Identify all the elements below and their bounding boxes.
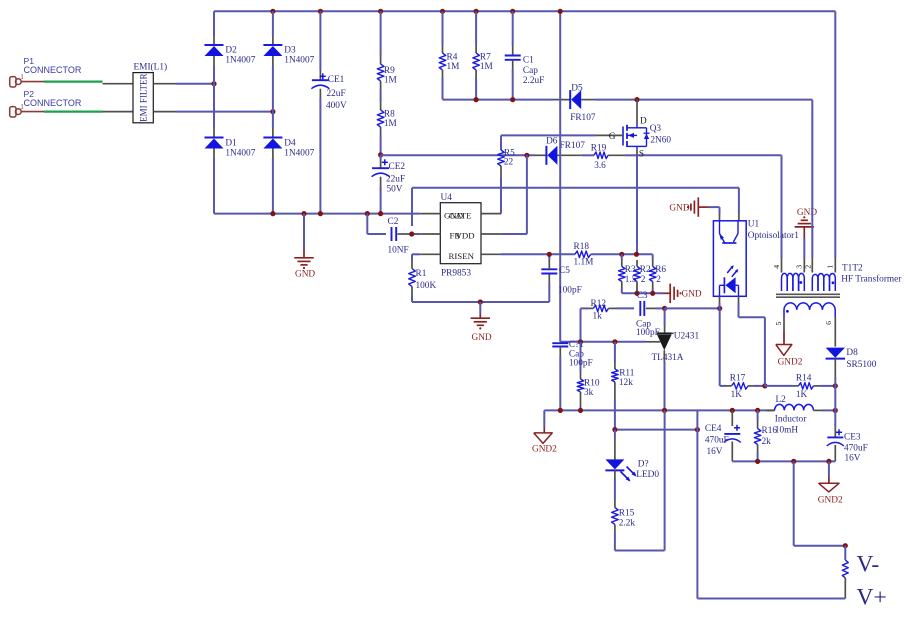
label T1T2 HF Transformer xyxy=(841,263,902,284)
svg-text:Inductor: Inductor xyxy=(775,415,807,425)
junction drain net at C1 xyxy=(510,97,515,102)
svg-text:FR107: FR107 xyxy=(570,113,596,123)
wire Q3 source down to aux rail xyxy=(636,155,638,254)
pin TL431 anode xyxy=(663,350,665,361)
capacitor CE2 22uF 50V xyxy=(372,159,406,194)
svg-text:Optoisolator1: Optoisolator1 xyxy=(748,231,799,241)
svg-text:1.1M: 1.1M xyxy=(574,258,594,268)
wire GND2 rail xyxy=(544,409,774,411)
svg-text:1N4007: 1N4007 xyxy=(225,149,255,159)
svg-text:22uF: 22uF xyxy=(386,174,405,184)
diode D4 1N4007 xyxy=(263,138,314,159)
capacitor C1 2.2uF xyxy=(505,56,545,87)
junction R17 R14 node xyxy=(762,383,767,388)
svg-text:SR5100: SR5100 xyxy=(846,360,876,370)
junction bottom rail at D4 xyxy=(270,211,275,216)
pin Q3 gate xyxy=(596,132,623,142)
svg-text:R11: R11 xyxy=(619,368,635,378)
junction top bus at CE1 xyxy=(318,9,323,14)
wire CE2 top xyxy=(380,155,382,168)
junction FB C2 node xyxy=(409,231,414,236)
pin D5 anode xyxy=(581,99,594,101)
junction at D1 D2 node xyxy=(211,81,216,86)
svg-text:2N60: 2N60 xyxy=(650,136,671,146)
svg-text:CONNECTOR: CONNECTOR xyxy=(24,98,82,108)
svg-text:1k: 1k xyxy=(593,311,603,321)
wire node to R14 xyxy=(765,385,793,387)
svg-text:GND: GND xyxy=(797,208,817,218)
pin U4 RISEN left xyxy=(420,253,440,255)
svg-text:C2: C2 xyxy=(388,217,399,227)
wire ref net xyxy=(560,341,646,343)
svg-text:R19: R19 xyxy=(591,143,607,153)
svg-text:GND2: GND2 xyxy=(778,357,803,367)
wire RISEN to R1 xyxy=(412,254,420,260)
svg-text:EMI FILTER: EMI FILTER xyxy=(139,73,149,121)
svg-text:4: 4 xyxy=(772,265,781,269)
wire LED to R15 xyxy=(614,470,616,507)
wire D3 anode to node xyxy=(272,66,274,112)
pin EMI filter left top xyxy=(103,83,134,85)
ground GND2 output xyxy=(818,461,843,505)
junction divider rail at R3 xyxy=(619,252,624,257)
wire output bottom rail xyxy=(732,460,835,462)
wire CE1 bottom xyxy=(319,89,321,214)
node C3 label xyxy=(637,291,648,301)
wire R7 top xyxy=(475,11,477,53)
svg-text:D2: D2 xyxy=(225,45,237,55)
wire R14 to D8 column xyxy=(820,385,835,387)
svg-text:R4: R4 xyxy=(447,52,458,62)
diode D? LED0 xyxy=(605,459,659,481)
svg-text:2: 2 xyxy=(803,265,812,269)
svg-text:G: G xyxy=(609,132,616,142)
svg-text:5: 5 xyxy=(774,321,783,325)
diode D6 FR107 xyxy=(546,137,585,165)
ground GND primary xyxy=(795,208,818,238)
svg-text:2.2uF: 2.2uF xyxy=(523,76,544,86)
wire GND to opto collector xyxy=(709,207,720,214)
wire R4 top xyxy=(442,11,444,53)
pin U4 VDD right xyxy=(481,233,500,235)
pin EMI filter right top xyxy=(153,83,176,85)
resistor R18 1.1M xyxy=(574,242,594,268)
connector P1 xyxy=(10,56,82,87)
wire R17 to node xyxy=(754,385,765,387)
svg-text:HF Transformer: HF Transformer xyxy=(841,274,902,285)
transformer secondary winding 5-6 xyxy=(784,303,835,317)
resistor R12 1k xyxy=(588,299,616,322)
pin 5 to GND2 xyxy=(783,317,785,345)
wire D2 anode to node xyxy=(213,66,215,84)
svg-text:1: 1 xyxy=(20,73,24,81)
capacitor C5 100pF xyxy=(541,266,581,296)
svg-text:R15: R15 xyxy=(619,508,635,518)
pin EMI filter right bottom xyxy=(153,111,176,113)
junction bottom rail at CE2 xyxy=(378,211,383,216)
svg-text:100pF: 100pF xyxy=(558,286,582,296)
ground GND opto sideways xyxy=(669,197,708,216)
svg-text:16V: 16V xyxy=(707,447,723,457)
resistor R7 1M xyxy=(473,52,493,72)
junction at D6 net xyxy=(524,153,529,158)
svg-text:3.6: 3.6 xyxy=(594,161,606,171)
wire R4 bottom xyxy=(442,70,444,100)
svg-text:EMI(L1): EMI(L1) xyxy=(134,62,168,73)
wire TL431 cathode xyxy=(664,308,666,333)
junction gnd rail at TL431 anode xyxy=(662,408,667,413)
svg-text:22: 22 xyxy=(504,157,514,167)
junction feedback rail at R11 LED xyxy=(612,427,617,432)
svg-text:V+: V+ xyxy=(857,585,887,611)
svg-text:R14: R14 xyxy=(796,373,812,383)
optoisolator U1 Optoisolator1 xyxy=(713,220,799,297)
shunt reference U2431 TL431A xyxy=(652,332,700,364)
wire feedback rail corner to V line xyxy=(695,427,700,432)
pin U4 FB left xyxy=(420,233,440,235)
svg-text:1K: 1K xyxy=(796,390,808,400)
pin R5 bottom xyxy=(500,166,502,178)
wire pin1 column from top bus xyxy=(834,11,836,272)
wire C2 to FB xyxy=(412,233,421,235)
wire C1 top xyxy=(512,11,514,55)
svg-text:R18: R18 xyxy=(574,242,590,252)
pin D5 cathode xyxy=(554,99,571,101)
svg-text:R17: R17 xyxy=(730,373,746,383)
pin U4 RISEN right xyxy=(481,253,500,255)
junction bottom rail R16 xyxy=(755,459,760,464)
pin U1 base side xyxy=(738,214,740,221)
wire top bus xyxy=(214,10,835,12)
junction gnd rail at R10 xyxy=(578,408,583,413)
junction divider rail at R2 xyxy=(634,252,639,257)
svg-text:3: 3 xyxy=(795,265,804,269)
wire pin4 column xyxy=(781,155,783,272)
svg-text:Cap: Cap xyxy=(523,66,538,76)
svg-text:D4: D4 xyxy=(284,139,296,149)
wire R9 top xyxy=(380,11,382,64)
wire C3 to TL431 node xyxy=(656,307,665,309)
pin D6 anode xyxy=(557,154,581,156)
wire RISEN net right xyxy=(500,253,575,255)
svg-text:R12: R12 xyxy=(591,299,607,309)
svg-text:400V: 400V xyxy=(326,101,347,111)
svg-text:1M: 1M xyxy=(480,62,493,72)
junction at D3 D4 node xyxy=(270,109,275,114)
svg-text:D1: D1 xyxy=(225,139,237,149)
wire D1 anode to bottom rail xyxy=(213,158,215,214)
svg-text:D3: D3 xyxy=(284,45,296,55)
svg-text:R10: R10 xyxy=(584,378,600,388)
wire TL431 anode to gnd rail xyxy=(664,361,666,410)
svg-text:GND: GND xyxy=(472,333,492,343)
wire bottom rail GND xyxy=(214,213,420,215)
wire R18 to divider rail xyxy=(591,253,653,255)
wire C2 branch xyxy=(367,214,386,234)
wire LED top xyxy=(614,430,616,460)
svg-text:470uF: 470uF xyxy=(705,435,729,445)
junction top bus at C1 xyxy=(510,9,515,14)
transformer T1T2 primary winding 2-1 xyxy=(812,274,835,292)
svg-text:2: 2 xyxy=(641,275,646,285)
junction GND rail xyxy=(478,299,483,304)
junction TL431 cathode node xyxy=(662,306,667,311)
svg-text:Q3: Q3 xyxy=(650,124,662,134)
wire P2 to EMI filter xyxy=(44,110,103,112)
diode D2 1N4007 xyxy=(205,45,256,66)
svg-text:U1: U1 xyxy=(748,220,760,230)
wire C1 bottom xyxy=(512,60,514,100)
svg-text:1N4007: 1N4007 xyxy=(225,56,255,66)
svg-text:GATE: GATE xyxy=(449,211,471,221)
svg-text:GND: GND xyxy=(295,269,315,279)
resistor R16 2k xyxy=(754,410,777,461)
svg-text:1N4007: 1N4007 xyxy=(284,56,314,66)
pin EMI filter left bottom xyxy=(103,111,134,113)
svg-text:1M: 1M xyxy=(447,62,460,72)
svg-text:2k: 2k xyxy=(762,437,772,447)
resistor R6 2 xyxy=(649,254,666,293)
resistor R5 22 xyxy=(498,149,515,168)
transformer polarity dots xyxy=(786,281,834,313)
junction top bus at VDD rail xyxy=(558,9,563,14)
wire node to optoisolator xyxy=(665,307,720,309)
junction ref at R11 xyxy=(612,339,617,344)
pin C2 right xyxy=(398,233,410,235)
wire D5 to transformer pin2 xyxy=(594,99,812,101)
svg-text:50V: 50V xyxy=(387,184,403,194)
svg-text:D?: D? xyxy=(638,459,649,469)
pin 6 to D8 xyxy=(834,317,836,347)
junction R8 CE2 node xyxy=(378,152,383,157)
resistor R1 100K xyxy=(409,260,437,295)
svg-text:RISEN: RISEN xyxy=(449,251,475,261)
capacitor CE3 470uF 16V xyxy=(827,410,868,463)
junction D8 column R14 xyxy=(833,383,838,388)
wire node to D4 xyxy=(272,112,274,138)
wire VCC net horizontal xyxy=(381,154,535,156)
svg-text:CE3: CE3 xyxy=(844,432,861,442)
wire D3 column upper xyxy=(272,11,274,45)
junction R16 top xyxy=(755,408,760,413)
wire VDD rail vertical xyxy=(559,11,561,342)
resistor V sense xyxy=(842,546,848,599)
ground GND under U4 xyxy=(471,302,492,343)
capacitor C2 10NF xyxy=(388,217,409,255)
resistor R14 1K xyxy=(793,373,820,400)
svg-text:1: 1 xyxy=(20,103,24,111)
wire R15 return to GND2 rail xyxy=(615,410,665,550)
diode D8 SR5100 xyxy=(826,348,877,370)
wire opto emitter loop xyxy=(739,303,765,386)
pin U1 led cathode xyxy=(719,296,721,308)
junction bottom rail at GND stem xyxy=(301,211,306,216)
label V+ xyxy=(857,585,887,611)
svg-text:1M: 1M xyxy=(384,119,397,129)
wire FB net to opto xyxy=(738,188,740,214)
diode D1 1N4007 xyxy=(205,138,256,159)
pin U4 GND left xyxy=(420,213,440,215)
junction divider bottom at R2 xyxy=(634,291,639,296)
svg-text:T1T2: T1T2 xyxy=(842,263,863,273)
svg-text:L2: L2 xyxy=(776,395,787,405)
capacitor C?1 Cap 100pF xyxy=(552,340,592,368)
wire R1 to GND rail xyxy=(412,295,549,302)
capacitor C3 Cap 100pF xyxy=(636,301,660,338)
pin U1 collector xyxy=(719,214,721,221)
resistor R9 1M xyxy=(377,64,397,85)
junction top bus at R4 xyxy=(440,9,445,14)
resistor R11 12k xyxy=(612,342,635,430)
junction bottom rail at CE1 xyxy=(318,211,323,216)
svg-text:1: 1 xyxy=(826,265,835,269)
resistor R3 1.5 xyxy=(619,254,637,293)
wire R8 to CE2 node xyxy=(380,127,382,155)
wire GND to pin3 xyxy=(803,238,805,273)
svg-text:GND2: GND2 xyxy=(818,495,843,505)
junction V- node xyxy=(843,543,848,548)
wire R7 bottom xyxy=(475,70,477,100)
svg-text:CE1: CE1 xyxy=(328,75,345,85)
capacitor CE4 470uF 16V xyxy=(705,410,741,461)
ground GND2 left xyxy=(532,410,557,454)
junction CE4 top xyxy=(730,408,735,413)
pin U1 led anode xyxy=(738,296,740,303)
wire drain net horizontal left xyxy=(443,99,554,101)
svg-text:TL431A: TL431A xyxy=(652,353,684,363)
svg-text:470uF: 470uF xyxy=(844,443,868,453)
svg-text:C3: C3 xyxy=(637,291,648,301)
svg-text:D5: D5 xyxy=(571,84,583,94)
wire R5 to U4 GATE pin xyxy=(500,178,502,214)
svg-text:C5: C5 xyxy=(559,266,570,276)
svg-text:D8: D8 xyxy=(846,348,858,358)
svg-text:C?1: C?1 xyxy=(569,340,584,350)
junction drain net at R7 xyxy=(474,97,479,102)
svg-text:3k: 3k xyxy=(584,388,594,398)
svg-text:R1: R1 xyxy=(416,269,427,279)
wire C?1 bottom to gnd rail xyxy=(559,347,561,411)
junction divider bottom at R6 xyxy=(650,291,655,296)
svg-text:GND: GND xyxy=(669,204,689,214)
pin C3 right xyxy=(646,307,656,309)
junction RISEN at C5 xyxy=(547,252,552,257)
junction gnd rail at C?1 xyxy=(558,408,563,413)
junction ref at R10 xyxy=(578,339,583,344)
junction L2 right CE3 column xyxy=(833,408,838,413)
wire node to D1 xyxy=(213,84,215,138)
wire opto node down xyxy=(720,308,726,386)
svg-text:100K: 100K xyxy=(416,281,437,291)
svg-text:D6: D6 xyxy=(546,137,558,147)
connector P2 xyxy=(10,89,82,117)
transformer T1T2 primary winding 4-3 xyxy=(782,273,805,291)
inductor L2 10mH xyxy=(767,395,836,436)
wire left bridge column upper xyxy=(213,11,215,45)
wire EMI to bridge bottom xyxy=(176,111,273,113)
ground GND input xyxy=(294,214,315,280)
wire RISEN corner R12 xyxy=(581,308,589,341)
junction optoisolator cathode node xyxy=(717,306,722,311)
svg-text:GND: GND xyxy=(682,289,702,299)
resistor R8 1M xyxy=(377,109,397,129)
resistor R19 3.6 xyxy=(591,143,608,171)
resistor R10 3k xyxy=(577,342,600,411)
wire V- branch xyxy=(794,461,846,545)
wire VDD pin to D6 node xyxy=(500,155,527,234)
svg-text:100pF: 100pF xyxy=(636,328,660,338)
svg-text:2: 2 xyxy=(656,275,661,285)
wire divider bottom rail xyxy=(622,292,663,294)
wire C5 bottom to GND rail xyxy=(548,274,550,303)
wire source net to transformer pin4 xyxy=(637,154,782,156)
capacitor CE1 22uF 400V xyxy=(311,73,347,111)
wire V+ vertical xyxy=(696,410,698,598)
svg-text:CONNECTOR: CONNECTOR xyxy=(24,65,82,75)
ground GND sideways right xyxy=(663,284,702,303)
wire R12 to C3 xyxy=(616,307,634,309)
pin C5 top xyxy=(548,254,550,269)
wire R19 to Q3 source xyxy=(625,154,637,156)
transistor Q3 2N60 xyxy=(623,100,671,160)
pin D8 anode bottom xyxy=(834,359,836,411)
pin U4 GATE right xyxy=(481,213,501,215)
svg-text:R6: R6 xyxy=(655,265,666,275)
wire pin2 column xyxy=(811,100,813,273)
svg-text:GND2: GND2 xyxy=(532,444,557,454)
svg-text:VDD: VDD xyxy=(456,231,475,241)
wire D4 anode to bottom rail xyxy=(272,158,274,214)
label V- xyxy=(857,552,880,578)
svg-text:10mH: 10mH xyxy=(775,426,799,436)
resistor R2 2 xyxy=(634,260,651,293)
svg-text:22uF: 22uF xyxy=(327,89,346,99)
wire CE1 top xyxy=(319,11,321,79)
IC U4 PR9853 xyxy=(440,193,481,278)
diode D5 FR107 xyxy=(570,84,596,123)
svg-text:C1: C1 xyxy=(523,56,534,66)
pin TL431 ref xyxy=(646,341,660,343)
svg-text:R7: R7 xyxy=(480,52,491,62)
wire V+ bottom xyxy=(697,598,845,600)
pin numbers T1T2 xyxy=(772,265,835,326)
ground GND2 secondary xyxy=(776,345,803,368)
junction bottom rail V- branch xyxy=(791,459,796,464)
svg-text:12k: 12k xyxy=(619,378,633,388)
wire feedback rail xyxy=(615,429,698,431)
diode D3 1N4007 xyxy=(263,45,314,66)
svg-text:10NF: 10NF xyxy=(388,245,409,255)
svg-text:R8: R8 xyxy=(384,109,395,119)
junction top bus at D3 xyxy=(270,9,275,14)
svg-text:U4: U4 xyxy=(441,193,453,203)
svg-text:1N4007: 1N4007 xyxy=(284,149,314,159)
svg-text:R2: R2 xyxy=(640,265,651,275)
resistor R15 2.2k xyxy=(612,508,636,529)
junction bottom rail at C2 branch xyxy=(365,211,370,216)
pin Q3 source xyxy=(636,150,638,160)
wire FB net horizontal xyxy=(412,188,739,226)
wire gate net xyxy=(501,135,596,150)
EMI filter L1 xyxy=(133,62,167,123)
junction bottom rail GND2 stem xyxy=(826,459,831,464)
wire CE2 bottom xyxy=(380,177,382,214)
svg-text:D: D xyxy=(640,116,647,126)
svg-text:2.2k: 2.2k xyxy=(619,519,636,529)
junction drain node Q3 xyxy=(634,97,639,102)
svg-text:V-: V- xyxy=(857,552,880,578)
svg-text:16V: 16V xyxy=(845,453,861,463)
